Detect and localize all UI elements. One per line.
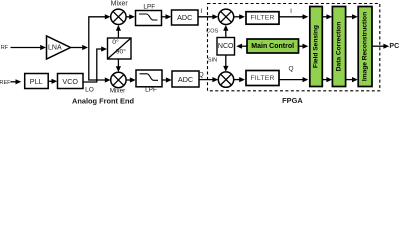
svg-text:Q: Q xyxy=(288,66,293,73)
svg-text:Field Sensing: Field Sensing xyxy=(313,25,320,68)
svg-text:Main Control: Main Control xyxy=(251,43,294,50)
mixer M1 (analog I) xyxy=(111,9,126,24)
filter LPF1 xyxy=(136,11,162,26)
block Data Correction xyxy=(332,7,345,87)
svg-text:Analog Front End: Analog Front End xyxy=(72,97,134,106)
svg-text:REF: REF xyxy=(0,80,11,86)
svg-text:PLL: PLL xyxy=(30,77,43,86)
wire RF input arrow xyxy=(11,45,47,50)
amplifier LNA xyxy=(47,36,71,59)
wire REF input arrow xyxy=(11,79,22,84)
block Image Reconstruction xyxy=(358,7,372,87)
block ADC2 xyxy=(172,71,199,87)
wire arrow into mixer M1 xyxy=(105,14,111,19)
block VCO xyxy=(58,74,84,89)
wire Data Correction to Image Reconstruction (top) xyxy=(346,14,358,19)
wire mixer M4 to FILTER2 xyxy=(234,77,245,82)
wire Field Sensing to Data Correction (top) xyxy=(322,14,332,19)
mixer M2 (analog Q) xyxy=(111,72,126,87)
block ADC1 xyxy=(172,10,199,25)
block Main Control xyxy=(247,39,299,53)
wire VCO to phase splitter xyxy=(83,46,107,82)
wire mixer M2 to LPF2 xyxy=(126,77,136,82)
svg-text:LPF: LPF xyxy=(143,3,155,10)
wire RF split vertical xyxy=(89,17,109,80)
svg-text:Mixer: Mixer xyxy=(111,1,129,8)
svg-text:FILTER: FILTER xyxy=(250,15,274,22)
wire FILTER1 to Field Sensing xyxy=(279,14,308,19)
svg-text:ADC: ADC xyxy=(178,75,193,84)
wire splitter to mixer M2 xyxy=(116,59,121,72)
wire NCO to mixer M3 xyxy=(223,25,228,38)
svg-text:LO: LO xyxy=(85,87,94,94)
wire ADC2 to mixer M4 xyxy=(199,77,218,82)
wire Main Control to Field Sensing xyxy=(299,44,309,49)
svg-text:I: I xyxy=(200,8,202,15)
wire mixer M1 to LPF1 xyxy=(126,14,135,19)
block NCO xyxy=(217,38,235,56)
wire arrow into mixer M2 xyxy=(105,77,111,82)
wire Data Correction to Image Reconstruction (bottom) xyxy=(346,77,358,82)
svg-text:Q: Q xyxy=(199,72,204,79)
block FILTER2 xyxy=(246,71,279,86)
wire splitter to mixer M1 xyxy=(116,25,121,38)
FPGA dashed boundary xyxy=(208,4,380,91)
phase splitter 0/90 xyxy=(108,38,132,59)
wire LPF1 to ADC1 xyxy=(162,14,172,19)
block FILTER1 xyxy=(246,12,279,25)
wire LNA to RF split xyxy=(71,45,89,50)
svg-text:90°: 90° xyxy=(116,47,127,55)
wire NCO to mixer M4 xyxy=(223,55,228,72)
svg-text:FILTER: FILTER xyxy=(250,75,274,82)
wire mixer M3 to FILTER1 xyxy=(234,14,245,19)
svg-text:COS: COS xyxy=(206,29,218,35)
wire LPF2 to ADC2 xyxy=(162,77,172,82)
block PLL xyxy=(25,74,49,89)
wire Main Control to NCO xyxy=(236,44,247,49)
wire ADC1 to mixer M3 xyxy=(198,14,218,19)
svg-text:ADC: ADC xyxy=(177,13,192,22)
filter LPF2 xyxy=(136,70,162,87)
svg-text:SIN: SIN xyxy=(208,57,217,63)
block Field Sensing xyxy=(310,7,323,87)
svg-text:LPF: LPF xyxy=(145,86,157,93)
svg-text:0°: 0° xyxy=(112,38,119,46)
svg-text:Image Reconstruction: Image Reconstruction xyxy=(362,12,369,81)
svg-text:Mixer: Mixer xyxy=(110,87,126,94)
mixer M4 (digital Q) xyxy=(218,72,233,87)
svg-text:I: I xyxy=(290,8,292,15)
svg-text:NCO: NCO xyxy=(218,43,234,50)
svg-text:FPGA: FPGA xyxy=(282,96,303,105)
wire Field Sensing to Data Correction (bottom) xyxy=(322,77,332,82)
svg-text:PC: PC xyxy=(389,43,399,50)
wire PLL to VCO xyxy=(48,79,57,84)
svg-text:LNA: LNA xyxy=(48,44,62,51)
svg-text:Data Correction: Data Correction xyxy=(336,22,343,71)
wire FILTER2 to Field Sensing xyxy=(279,77,308,82)
wire Image Reconstruction to PC xyxy=(372,44,389,49)
svg-text:RF: RF xyxy=(1,45,9,51)
mixer M3 (digital I) xyxy=(218,9,233,24)
svg-text:VCO: VCO xyxy=(62,77,78,86)
